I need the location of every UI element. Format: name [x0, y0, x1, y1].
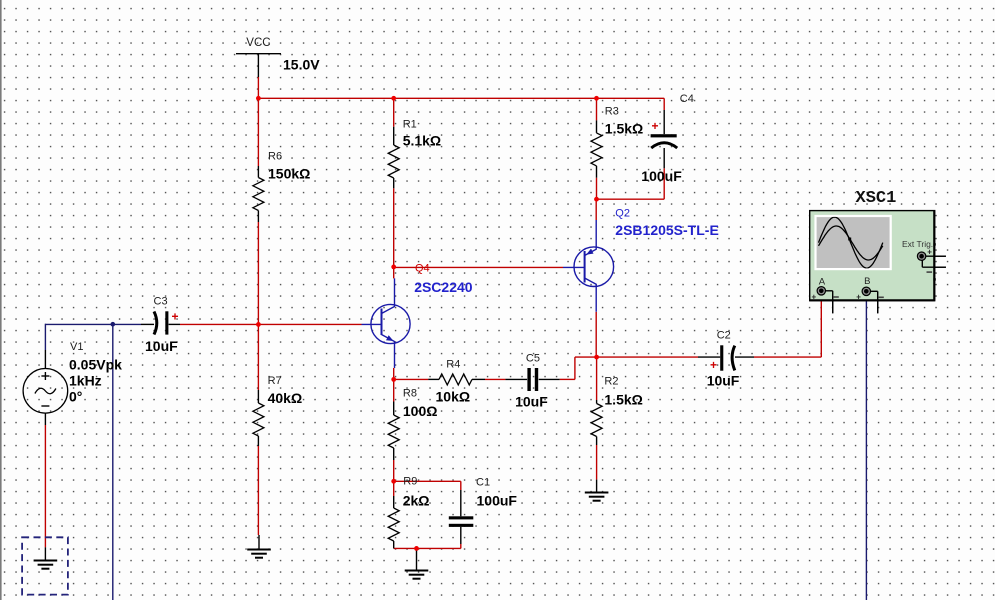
svg-text:R9: R9 — [403, 476, 417, 488]
svg-text:15.0V: 15.0V — [283, 57, 320, 73]
svg-text:0°: 0° — [69, 389, 82, 405]
svg-text:2kΩ: 2kΩ — [403, 492, 430, 508]
svg-text:1.5kΩ: 1.5kΩ — [605, 121, 643, 137]
svg-text:100uF: 100uF — [477, 492, 518, 508]
svg-text:10kΩ: 10kΩ — [436, 388, 471, 404]
svg-text:1.5kΩ: 1.5kΩ — [604, 392, 642, 408]
svg-text:R7: R7 — [268, 375, 282, 387]
svg-text:C2: C2 — [717, 330, 731, 342]
svg-text:R8: R8 — [403, 388, 417, 400]
svg-text:10uF: 10uF — [707, 373, 740, 389]
svg-text:+: + — [652, 119, 659, 133]
svg-text:150kΩ: 150kΩ — [268, 166, 310, 182]
svg-text:R4: R4 — [446, 359, 460, 371]
svg-text:A: A — [819, 277, 826, 288]
svg-text:40kΩ: 40kΩ — [268, 390, 303, 406]
svg-text:XSC1: XSC1 — [856, 189, 897, 208]
svg-text:R1: R1 — [403, 118, 417, 130]
svg-text:B: B — [864, 276, 870, 287]
svg-text:Q4: Q4 — [415, 263, 430, 275]
svg-text:100uF: 100uF — [641, 168, 682, 184]
svg-text:+: + — [927, 247, 932, 256]
svg-text:C4: C4 — [680, 93, 694, 105]
svg-text:100Ω: 100Ω — [403, 403, 438, 419]
svg-text:C1: C1 — [476, 477, 490, 489]
svg-text:C5: C5 — [526, 353, 540, 365]
svg-text:R3: R3 — [605, 106, 619, 118]
svg-text:5.1kΩ: 5.1kΩ — [403, 133, 441, 149]
svg-text:10uF: 10uF — [515, 393, 548, 409]
svg-text:V1: V1 — [70, 341, 83, 353]
svg-text:0.05Vpk: 0.05Vpk — [69, 357, 122, 373]
svg-text:+: + — [812, 292, 817, 301]
svg-text:VCC: VCC — [246, 37, 270, 49]
svg-text:C3: C3 — [154, 296, 168, 308]
svg-text:+: + — [710, 358, 717, 372]
svg-text:R2: R2 — [604, 376, 618, 388]
svg-text:1kHz: 1kHz — [69, 373, 102, 389]
svg-text:R6: R6 — [268, 151, 282, 163]
svg-text:2SC2240: 2SC2240 — [414, 279, 473, 295]
svg-text:+: + — [172, 310, 179, 324]
svg-text:+: + — [856, 292, 861, 301]
svg-text:10uF: 10uF — [145, 338, 178, 354]
svg-text:2SB1205S-TL-E: 2SB1205S-TL-E — [615, 222, 718, 238]
svg-text:Q2: Q2 — [615, 208, 630, 220]
